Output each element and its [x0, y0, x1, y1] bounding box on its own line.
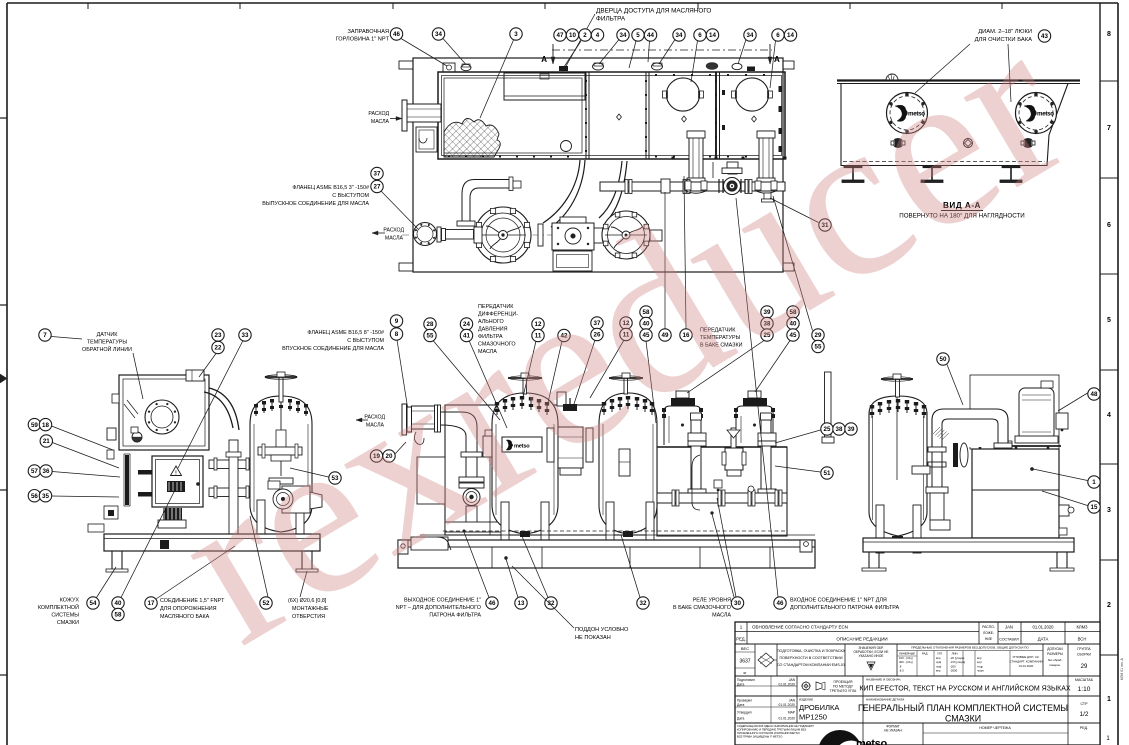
svg-text:УГЛ.: УГЛ. [937, 652, 943, 656]
svg-text:ОБРАТНОЙ ЛИНИИ: ОБРАТНОЙ ЛИНИИ [82, 345, 132, 353]
svg-text:23: 23 [215, 332, 222, 339]
svg-text:СМАЗКИ: СМАЗКИ [57, 620, 79, 626]
svg-text:01.01.2020: 01.01.2020 [1033, 625, 1055, 630]
svg-text:14: 14 [787, 32, 794, 39]
svg-text:ЛИН.: ЛИН. [952, 652, 959, 656]
svg-text:ДВЕРЦА ДОСТУПА ДЛЯ МАСЛЯНОГО: ДВЕРЦА ДОСТУПА ДЛЯ МАСЛЯНОГО [596, 8, 711, 15]
svg-text:РАЗМЕРЫ: РАЗМЕРЫ [1047, 652, 1063, 656]
svg-text:50: 50 [940, 356, 947, 363]
svg-text:ВЕС: ВЕС [741, 646, 749, 651]
svg-text:Утвердил: Утвердил [737, 711, 752, 715]
svg-text:27: 27 [374, 184, 381, 191]
svg-text:5: 5 [636, 32, 640, 39]
svg-text:НОМЕР ЧЕРТЕЖА: НОМЕР ЧЕРТЕЖА [979, 726, 1011, 730]
svg-text:01.01.2020: 01.01.2020 [1019, 664, 1034, 668]
svg-text:РЕЛЕ УРОВНЯ: РЕЛЕ УРОВНЯ [693, 598, 731, 604]
svg-text:25: 25 [824, 426, 831, 433]
svg-text:ПАТРОНА ФИЛЬТРА: ПАТРОНА ФИЛЬТРА [429, 613, 481, 619]
svg-text:A: A [541, 55, 547, 64]
svg-text:ПРОЕКЦИЯ: ПРОЕКЦИЯ [834, 680, 853, 684]
svg-text:НЕ ПОКАЗАН: НЕ ПОКАЗАН [575, 635, 611, 641]
svg-text:ИЗДЕЛИЕ: ИЗДЕЛИЕ [799, 698, 813, 702]
svg-text:8: 8 [1107, 31, 1111, 38]
svg-text:17: 17 [148, 600, 155, 607]
svg-text:КОПИРОВАНИЮ И ПЕРЕДАЧЕ ТРЕТЬИМ: КОПИРОВАНИЮ И ПЕРЕДАЧЕ ТРЕТЬИМ ЛИЦАМ БЕЗ [737, 728, 806, 732]
svg-text:44: 44 [647, 32, 654, 39]
svg-text:ВХОДНОЕ СОЕДИНЕНИЕ 1" NPT ДЛЯ: ВХОДНОЕ СОЕДИНЕНИЕ 1" NPT ДЛЯ [790, 598, 887, 604]
svg-text:ВСЕ ПРАВА ЗАЩИЩЕНЫ © METSO: ВСЕ ПРАВА ЗАЩИЩЕНЫ © METSO [737, 735, 782, 739]
svg-text:43: 43 [1041, 33, 1048, 40]
svg-text:СОДЕРЖАЩАЯСЯ В ЗДЕСЬ ИНФОРМАЦИ: СОДЕРЖАЩАЯСЯ В ЗДЕСЬ ИНФОРМАЦИЯ НЕ ПОДЛЕ… [737, 724, 814, 728]
svg-text:ГОРЛОВИНА 1" NPT: ГОРЛОВИНА 1" NPT [336, 37, 390, 43]
svg-text:МАСЛЯНОГО БАКА: МАСЛЯНОГО БАКА [160, 614, 210, 620]
svg-text:РАСХОД: РАСХОД [383, 228, 404, 234]
svg-text:СО СТАНДАРТОМ КОМПАНИИ EMS-01: СО СТАНДАРТОМ КОМПАНИИ EMS-01 [777, 663, 845, 667]
svg-text:ДОПУСКИ: ДОПУСКИ [1047, 647, 1063, 651]
svg-text:ФЛАНЕЦ ASME B16,5 3" -150#: ФЛАНЕЦ ASME B16,5 3" -150# [292, 185, 369, 191]
svg-text:ПОДДОН УСЛОВНО: ПОДДОН УСЛОВНО [575, 627, 629, 633]
svg-text:46: 46 [489, 600, 496, 607]
svg-text:ФИЛЬТРА: ФИЛЬТРА [596, 16, 626, 23]
svg-text:Подготовил: Подготовил [737, 678, 755, 682]
svg-text:38: 38 [836, 426, 843, 433]
svg-text:В БАКЕ СМАЗОЧНОГО: В БАКЕ СМАЗОЧНОГО [673, 605, 731, 611]
svg-text:01.01.2020: 01.01.2020 [778, 703, 795, 707]
svg-text:Дата: Дата [737, 683, 744, 687]
svg-text:4: 4 [1107, 412, 1111, 419]
svg-text:7: 7 [43, 332, 47, 339]
svg-text:КОЖУХ: КОЖУХ [60, 598, 80, 604]
svg-text:56: 56 [31, 493, 38, 500]
svg-text:01.01.2020: 01.01.2020 [778, 717, 795, 721]
svg-text:10: 10 [569, 32, 576, 39]
svg-text:34: 34 [676, 32, 683, 39]
svg-text:MAP: MAP [788, 711, 796, 715]
svg-text:НИЕ: НИЕ [985, 637, 993, 641]
svg-text:УКАЗАНО ИНОЕ: УКАЗАНО ИНОЕ [859, 654, 884, 658]
svg-text:3: 3 [514, 31, 518, 38]
svg-text:ДОПОЛНИТЕЛЬНОГО ПАТРОНА ФИЛЬТР: ДОПОЛНИТЕЛЬНОГО ПАТРОНА ФИЛЬТРА [790, 605, 900, 611]
svg-text:30: 30 [734, 600, 741, 607]
svg-text:ВЫПУСКНОЕ СОЕДИНЕНИЕ ДЛЯ МАСЛА: ВЫПУСКНОЕ СОЕДИНЕНИЕ ДЛЯ МАСЛА [262, 201, 369, 207]
svg-text:48: 48 [1091, 391, 1098, 398]
svg-text:ПРЕДЕЛЬНЫЕ ОТКЛОНЕНИЯ РАЗМЕРОВ: ПРЕДЕЛЬНЫЕ ОТКЛОНЕНИЯ РАЗМЕРОВ БЕЗ ДОПУС… [911, 646, 1029, 650]
svg-text:2: 2 [583, 32, 587, 39]
svg-text:КИП EFECTOR, ТЕКСТ НА РУССКОМ: КИП EFECTOR, ТЕКСТ НА РУССКОМ И АНГЛИЙСК… [859, 684, 1070, 693]
svg-text:СТАНДАРТ. КОМПАНИИ: СТАНДАРТ. КОМПАНИИ [1010, 660, 1043, 664]
svg-text:13: 13 [518, 600, 525, 607]
svg-text:ПОВЕРХНОСТИ В СООТВЕТСТВИИ: ПОВЕРХНОСТИ В СООТВЕТСТВИИ [780, 656, 843, 660]
svg-text:МАСШТАБ: МАСШТАБ [1075, 678, 1094, 682]
svg-text:59: 59 [31, 422, 38, 429]
svg-text:ГЕНЕРАЛЬНЫЙ ПЛАН КОМПЛЕКТНОЙ С: ГЕНЕРАЛЬНЫЙ ПЛАН КОМПЛЕКТНОЙ СИСТЕМЫ [858, 702, 1068, 713]
svg-text:КОМПЛЕКТНОЙ: КОМПЛЕКТНОЙ [38, 603, 79, 611]
svg-text:JAN: JAN [1005, 625, 1013, 630]
svg-text:поверхн.: поверхн. [1049, 663, 1061, 667]
svg-text:14: 14 [709, 32, 716, 39]
svg-text:ТЕМПЕРАТУРЫ: ТЕМПЕРАТУРЫ [87, 340, 128, 346]
svg-text:СМАЗКИ: СМАЗКИ [945, 714, 981, 724]
svg-text:46: 46 [393, 31, 400, 38]
svg-text:МАСЛА: МАСЛА [712, 613, 731, 619]
svg-text:58: 58 [115, 612, 122, 619]
svg-text:ПОДГОТОВКА, ОЧИСТКА И ПОКРАСКА: ПОДГОТОВКА, ОЧИСТКА И ПОКРАСКА [777, 649, 846, 653]
svg-text:4: 4 [596, 32, 600, 39]
svg-text:32: 32 [640, 600, 647, 607]
svg-text:6: 6 [1107, 222, 1111, 229]
svg-text:15: 15 [1091, 504, 1098, 511]
svg-text:3: 3 [1107, 507, 1111, 514]
svg-text:СТР: СТР [1080, 702, 1088, 706]
svg-text:ЗАПРАВОЧНАЯ: ЗАПРАВОЧНАЯ [348, 29, 389, 35]
svg-text:СИСТЕМЫ: СИСТЕМЫ [51, 613, 79, 619]
svg-text:СБОРКИ: СБОРКИ [1077, 653, 1092, 657]
svg-text:A: A [774, 55, 780, 64]
svg-text:6: 6 [776, 32, 780, 39]
svg-text:3637: 3637 [739, 659, 750, 665]
svg-text:УГЛОВЫЕ ДОП. СК.: УГЛОВЫЕ ДОП. СК. [1012, 655, 1039, 659]
svg-text:без обраб.: без обраб. [1048, 658, 1062, 662]
svg-text:22: 22 [215, 345, 222, 352]
svg-text:6: 6 [698, 32, 702, 39]
svg-text:РЕД.: РЕД. [736, 637, 746, 642]
svg-text:ВСН: ВСН [1078, 637, 1087, 642]
svg-text:metso: metso [856, 738, 887, 745]
svg-text:36: 36 [43, 468, 50, 475]
svg-text:1: 1 [1092, 479, 1096, 486]
svg-text:39: 39 [848, 426, 855, 433]
svg-text:НАЗВАНИЕ И ОБОЗНАЧ.: НАЗВАНИЕ И ОБОЗНАЧ. [866, 678, 901, 682]
svg-text:2: 2 [1107, 602, 1111, 609]
svg-text:34: 34 [435, 31, 442, 38]
svg-text:1: 1 [1107, 696, 1111, 703]
svg-text:чшрл: чшрл [977, 669, 984, 673]
svg-text:ДАТЧИК: ДАТЧИК [97, 332, 119, 338]
svg-text:ЛИНЕЙНЫЕ: ЛИНЕЙНЫЕ [899, 652, 915, 656]
svg-text:ЛОЖЕ-: ЛОЖЕ- [983, 631, 994, 635]
svg-text:46: 46 [777, 600, 784, 607]
svg-text:МАСЛА: МАСЛА [371, 119, 390, 125]
svg-text:MP1250: MP1250 [799, 713, 827, 722]
svg-text:ДРОБИЛКА: ДРОБИЛКА [799, 703, 839, 712]
svg-text:ПО МЕТОДУ: ПО МЕТОДУ [833, 685, 854, 689]
svg-text:18: 18 [42, 422, 49, 429]
svg-text:51: 51 [824, 470, 831, 477]
svg-text:РЕД.: РЕД. [1080, 726, 1088, 730]
svg-text:1:10: 1:10 [1078, 686, 1091, 693]
svg-text:НЕ УКАЗАН: НЕ УКАЗАН [884, 729, 902, 733]
svg-text:JAN: JAN [789, 699, 796, 703]
svg-text:JAN: JAN [789, 678, 796, 682]
svg-text:-2000: -2000 [950, 669, 958, 673]
svg-text:47: 47 [557, 32, 564, 39]
svg-text:ГРУППА: ГРУППА [1077, 647, 1091, 651]
svg-text:35: 35 [42, 493, 49, 500]
svg-text:ОБНОВЛЕНИЕ СОГЛАСНО СТАНДАРТУ: ОБНОВЛЕНИЕ СОГЛАСНО СТАНДАРТУ ECN [752, 625, 848, 630]
svg-text:29: 29 [1081, 664, 1088, 670]
svg-text:РАСПО-: РАСПО- [982, 625, 995, 629]
svg-text:33: 33 [242, 332, 249, 339]
svg-text:ДАТА: ДАТА [1038, 637, 1049, 642]
svg-text:ПИСЬМЕННОГО СОГЛАСИЯ КОМПАНИИ: ПИСЬМЕННОГО СОГЛАСИЯ КОМПАНИИ METSO [737, 731, 800, 735]
svg-text:РАСХОД: РАСХОД [368, 111, 389, 117]
svg-text:СОСТАВИЛ: СОСТАВИЛ [999, 638, 1019, 642]
svg-text:ДЛЯ ОПОРОЖНЕНИЯ: ДЛЯ ОПОРОЖНЕНИЯ [160, 606, 217, 612]
svg-text:НАИМЕНОВАНИЕ ДЕТАЛИ: НАИМЕНОВАНИЕ ДЕТАЛИ [866, 698, 904, 702]
svg-text:37: 37 [374, 171, 381, 178]
svg-text:54: 54 [90, 600, 97, 607]
svg-text:С ВЫСТУПОМ: С ВЫСТУПОМ [332, 193, 369, 199]
svg-text:21: 21 [43, 438, 50, 445]
svg-text:ОПИСАНИЕ РЕДАКЦИИ: ОПИСАНИЕ РЕДАКЦИИ [836, 637, 887, 642]
svg-text:ТРЕТЬЕГО УГЛА: ТРЕТЬЕГО УГЛА [830, 689, 857, 693]
svg-text:.8.3: .8.3 [899, 669, 904, 673]
svg-text:5: 5 [1107, 317, 1111, 324]
svg-text:впр: впр [936, 669, 941, 673]
svg-text:Дата: Дата [737, 717, 744, 721]
svg-text:Проверил: Проверил [737, 699, 752, 703]
svg-text:7: 7 [1107, 125, 1111, 132]
svg-text:РАД.: РАД. [922, 652, 929, 656]
svg-text:32: 32 [548, 600, 555, 607]
svg-text:57: 57 [31, 468, 38, 475]
svg-text:МАСЛА: МАСЛА [385, 236, 404, 242]
svg-text:34: 34 [747, 32, 754, 39]
svg-text:40: 40 [115, 600, 122, 607]
svg-text:34: 34 [620, 32, 627, 39]
svg-text:КЛМ3: КЛМ3 [1076, 625, 1088, 630]
svg-text:КЛМ 01 rev. A: КЛМ 01 rev. A [1120, 658, 1124, 680]
svg-text:1/2: 1/2 [1079, 711, 1088, 718]
svg-text:01.01.2020: 01.01.2020 [778, 683, 795, 687]
svg-text:Дата: Дата [737, 703, 744, 707]
